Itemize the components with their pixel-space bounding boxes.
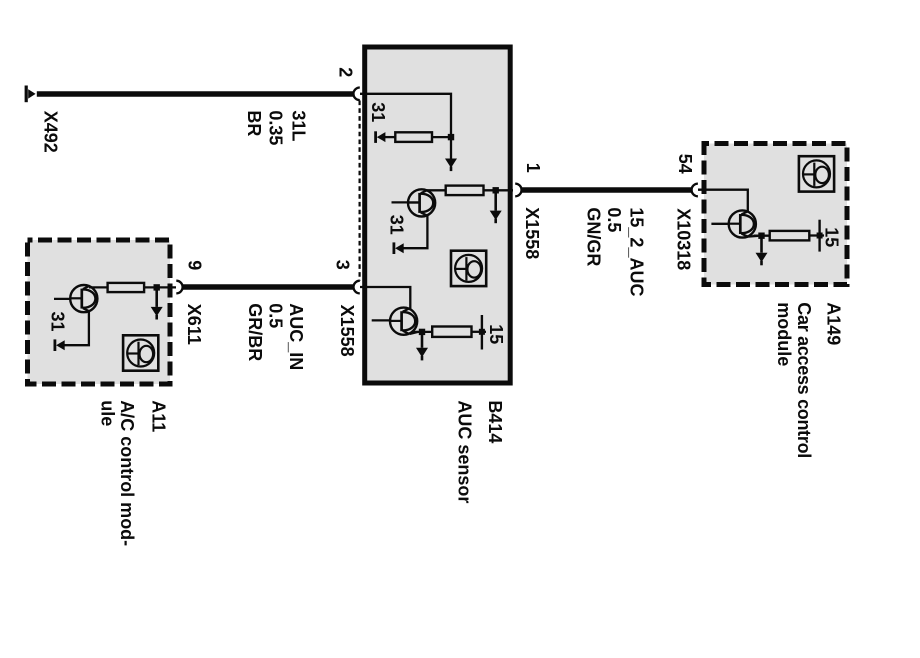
lead from R3 to terminal 15 bar [472, 331, 487, 333]
transistor Q4 [729, 210, 756, 237]
svg-text:0.5: 0.5 [604, 207, 624, 232]
internal ground 31 arrow (left) [376, 131, 386, 143]
sensor symbol in A11 [123, 335, 158, 370]
junction on pin-9 line [154, 284, 160, 290]
module box B414 (AUC sensor) [365, 47, 511, 383]
junction on pin-1 line [493, 187, 499, 193]
svg-text:ule: ule [98, 400, 118, 426]
Q1 emitter wire to internal ground [399, 216, 428, 249]
Q4 base lead [711, 223, 729, 225]
svg-text:X1558: X1558 [337, 305, 357, 357]
junction at R1 branch [448, 134, 454, 140]
control module box A11 [28, 240, 171, 384]
Q3 base lead [54, 298, 71, 300]
pin 3 wire inside B414 [360, 287, 410, 310]
sensor symbol in B414 [451, 251, 486, 286]
lead to resistor R1 [385, 136, 396, 138]
control module box A149 [704, 144, 847, 285]
ground arrow below pin-9 branch [151, 307, 163, 320]
lead to resistor R5 [754, 235, 770, 237]
ground arrow below pin-2 branch [445, 159, 457, 172]
svg-text:1: 1 [523, 163, 543, 173]
resistor R5 [770, 231, 810, 241]
Q2 emitter lead to junction [410, 332, 418, 334]
branch down from pin-9 line [155, 287, 158, 307]
pin 9 connector arc [176, 281, 182, 294]
svg-text:31L: 31L [289, 110, 309, 141]
svg-text:X1558: X1558 [522, 207, 542, 259]
svg-text:54: 54 [675, 154, 695, 174]
svg-text:GR/BR: GR/BR [245, 303, 265, 361]
wire from pin 2 inside B414 [360, 94, 451, 159]
junction at Q2 emitter [419, 329, 425, 335]
junction at terminal bar [479, 329, 485, 335]
wire 31L from X492 to B414 pin 2 [37, 91, 353, 97]
svg-text:B414: B414 [485, 400, 505, 443]
junction at terminal bar A149 [817, 233, 823, 239]
terminal 15 bar (A149) [818, 220, 820, 252]
wire from pin 54 inside A149 [698, 190, 748, 213]
Q1 base lead [392, 201, 419, 203]
sensor symbol in A149 [799, 156, 834, 191]
svg-text:X611: X611 [184, 304, 204, 345]
resistor R2 [446, 186, 484, 196]
pin 2 connector arc [353, 88, 359, 101]
svg-text:0.5: 0.5 [266, 303, 286, 328]
svg-text:X492: X492 [40, 111, 60, 153]
branch down from Q2 emitter [421, 332, 424, 348]
svg-text:X10318: X10318 [673, 208, 693, 270]
svg-text:Car access control: Car access control [794, 302, 814, 458]
transistor Q3 [70, 285, 97, 312]
ground arrow below pin-1 branch [490, 211, 502, 224]
pin 54 connector arc [692, 184, 698, 197]
svg-text:15: 15 [486, 324, 506, 344]
wire from pin 9 inside A11 [144, 286, 176, 288]
lead from R2 to pin 1 [484, 189, 514, 191]
svg-text:A/C control mod-: A/C control mod- [117, 400, 137, 546]
ground arrow below Q2 [416, 348, 428, 361]
resistor R4 [108, 283, 145, 292]
svg-text:9: 9 [184, 260, 204, 270]
Q3 emitter wire to internal ground [60, 311, 89, 345]
connector X1558 dashed line on B414 left edge [359, 101, 361, 281]
Q2 base lead [372, 319, 391, 321]
svg-text:31: 31 [368, 102, 388, 122]
lead from R1 to branch [432, 136, 452, 138]
svg-text:AUC_IN: AUC_IN [286, 303, 306, 370]
svg-text:AUC sensor: AUC sensor [455, 400, 475, 503]
lead to resistor R3 [414, 331, 432, 333]
branch down from pin-1 line [494, 190, 497, 210]
svg-text:15: 15 [822, 227, 842, 247]
svg-text:A11: A11 [148, 400, 168, 432]
lead from R5 to terminal 15 bar [809, 234, 824, 236]
branch down from Q4 emitter [760, 236, 763, 253]
terminal X492 [26, 86, 35, 103]
Q4 emitter lead [748, 235, 758, 238]
svg-text:31: 31 [47, 312, 67, 332]
Q3 collector lead [89, 286, 108, 288]
Q1 collector lead [427, 189, 446, 191]
svg-text:31: 31 [387, 215, 407, 235]
transistor Q1 [408, 189, 435, 216]
svg-text:GN/GR: GN/GR [584, 207, 604, 266]
resistor R1 [395, 132, 432, 142]
pin 1 connector arc [515, 184, 521, 197]
pin 3 connector arc [353, 281, 359, 294]
wire 15_2_AUC from pin 1 to A149 pin 54 [521, 187, 691, 193]
svg-text:A149: A149 [823, 302, 843, 345]
ground arrow at Q1 emitter [394, 242, 404, 254]
terminal 15 bar (B414) [481, 315, 483, 350]
svg-text:module: module [774, 302, 794, 366]
svg-text:15_2_AUC: 15_2_AUC [626, 207, 646, 296]
svg-text:3: 3 [332, 260, 352, 270]
resistor R3 [432, 327, 471, 337]
ground arrow at Q3 emitter [55, 339, 65, 351]
wire AUC_IN from A11 pin 9 to B414 pin 3 [183, 284, 353, 290]
ground arrow below Q4 [756, 253, 768, 266]
transistor Q2 [390, 308, 417, 335]
svg-text:BR: BR [244, 110, 264, 136]
svg-text:0.35: 0.35 [266, 110, 286, 145]
junction at Q4 emitter [758, 233, 764, 239]
svg-text:2: 2 [336, 67, 356, 77]
